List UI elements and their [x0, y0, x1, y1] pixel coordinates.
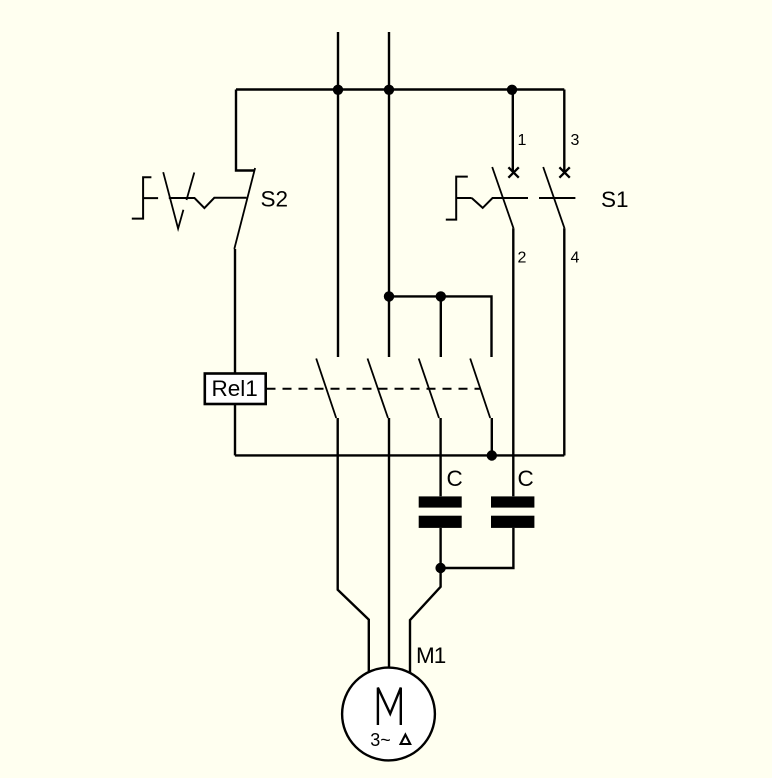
wire: contact 2 to motor — [388, 418, 390, 668]
wire: contact 3 to capacitor C1 — [439, 418, 441, 496]
dashed link: Rel1 to contacts — [267, 388, 481, 390]
wire: S1 pin 1 — [512, 90, 514, 173]
wire: contact 4 to bottom bus — [491, 418, 493, 456]
switch S1 actuator bracket — [446, 177, 472, 220]
switch S2 release V symbol — [163, 172, 183, 228]
relay contact 3 blade — [419, 359, 439, 419]
wire: S2 feed drop — [236, 90, 255, 171]
svg-text:4: 4 — [571, 250, 580, 267]
svg-text:Rel1: Rel1 — [212, 376, 258, 401]
switch S1 pole 2 blade — [543, 167, 564, 228]
wire: S1 pin 4 to bottom bus — [563, 228, 565, 455]
svg-text:M1: M1 — [416, 643, 446, 668]
wire: middle supply line — [388, 32, 390, 357]
junction: top bus / middle supply — [384, 85, 394, 95]
switch S2 slash — [187, 173, 195, 201]
switch S2 link line with zigzag — [169, 198, 247, 208]
motor M1 circle — [342, 668, 435, 761]
switch S1 pole 1 blade — [492, 167, 513, 228]
capacitor C2 — [491, 496, 534, 528]
wire: S2 to Rel1 — [234, 249, 236, 374]
junction: contact bus / middle supply — [384, 291, 394, 301]
relay contact 1 blade — [316, 359, 336, 419]
junction: contact bus / contact 3 stub — [436, 291, 446, 301]
junction: top bus / S1 pin 1 branch — [507, 85, 517, 95]
wire: contact 1 to motor — [338, 418, 369, 673]
switch S1 link line with zigzag — [472, 198, 576, 208]
wire: C1 bottom lead — [439, 528, 441, 568]
wire: capacitors to motor — [410, 568, 441, 673]
svg-text:3~: 3~ — [370, 730, 391, 750]
motor M glyph — [378, 688, 401, 725]
wire: bottom bus — [235, 454, 564, 456]
capacitor C1 — [419, 496, 462, 528]
switch S2 actuator bracket — [132, 177, 158, 218]
motor delta symbol — [401, 735, 411, 744]
wire: S1 pin 3 — [563, 90, 565, 173]
svg-text:S1: S1 — [601, 187, 629, 212]
relay contact 4 blade — [470, 359, 490, 419]
switch S2 blade — [234, 168, 255, 249]
contact X mark pin 3 — [559, 167, 569, 177]
wire: contact feed bus — [389, 296, 492, 357]
junction: capacitor bottoms — [435, 563, 445, 573]
junction: contact 4 / bottom bus — [487, 450, 497, 460]
wire: contact 3 stub — [440, 296, 442, 357]
svg-text:2: 2 — [518, 250, 527, 267]
wire: top bus — [236, 88, 564, 90]
svg-text:C: C — [518, 466, 534, 491]
junction: top bus / left supply — [333, 85, 343, 95]
wire: C2 bottom lead — [441, 528, 514, 568]
wire: left supply line — [337, 32, 339, 357]
relay contact 2 blade — [368, 359, 389, 419]
svg-text:1: 1 — [518, 132, 527, 149]
contact X mark pin 1 — [508, 167, 518, 177]
relay coil Rel1 box — [205, 374, 266, 405]
svg-text:3: 3 — [571, 132, 580, 149]
wire: Rel1 to bottom bus — [234, 404, 236, 455]
svg-text:S2: S2 — [261, 187, 289, 212]
wire: S1 pin 2 to capacitor C2 — [512, 228, 514, 496]
svg-text:C: C — [447, 466, 463, 491]
